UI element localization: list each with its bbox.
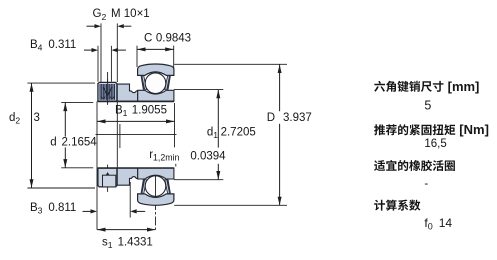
svg-text:3.937: 3.937 xyxy=(283,112,312,124)
svg-text:0.311: 0.311 xyxy=(48,39,76,51)
svg-text:M 10×1: M 10×1 xyxy=(111,8,150,20)
svg-text:0.9843: 0.9843 xyxy=(156,32,191,44)
svg-text:C: C xyxy=(144,32,152,44)
svg-text:1.9055: 1.9055 xyxy=(132,104,167,116)
svg-text:0.811: 0.811 xyxy=(48,202,76,214)
svg-text:[mm]: [mm] xyxy=(444,79,479,94)
svg-text:[Nm]: [Nm] xyxy=(456,122,489,137)
svg-text:-: - xyxy=(424,178,428,190)
svg-text:D: D xyxy=(267,112,275,124)
svg-text:0.0394: 0.0394 xyxy=(190,150,226,162)
svg-text:2.7205: 2.7205 xyxy=(221,126,256,138)
svg-text:2.1654: 2.1654 xyxy=(62,137,98,149)
svg-text:16,5: 16,5 xyxy=(424,138,446,150)
svg-text:3: 3 xyxy=(34,112,40,124)
svg-text:d: d xyxy=(50,137,56,149)
svg-text:5: 5 xyxy=(424,98,431,112)
svg-text:1.4331: 1.4331 xyxy=(118,237,153,249)
